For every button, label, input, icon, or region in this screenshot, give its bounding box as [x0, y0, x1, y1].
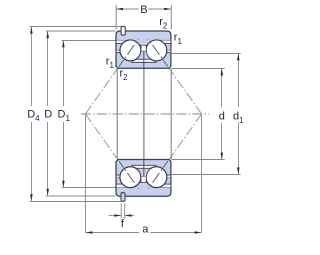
f right arrow tail: [125, 215, 134, 217]
left ring gap: [117, 175, 123, 177]
raceway root line: [131, 61, 157, 63]
locating pin top: [121, 26, 125, 35]
contact line left-down: [85, 114, 138, 189]
contact line left-up: [85, 39, 138, 114]
D4 bottom extension line: [30, 201, 122, 203]
inner ring raceway white band: [134, 56, 154, 62]
d1 top extension line: [172, 53, 241, 55]
a dimension line: [86, 232, 140, 234]
cage neck: [141, 46, 146, 52]
ball left: [120, 40, 141, 61]
contact line through left ball: [119, 39, 139, 67]
svg-text:d1: d1: [233, 111, 244, 125]
contact line through right ball: [148, 39, 168, 67]
D4 top extension line: [30, 26, 122, 28]
D top extension line: [46, 30, 116, 32]
svg-text:r1: r1: [106, 56, 115, 70]
ball right: [146, 167, 167, 188]
left face line: [116, 68, 118, 159]
svg-text:r2: r2: [120, 68, 129, 82]
svg-text:d: d: [219, 111, 225, 123]
D bottom extension line: [46, 195, 116, 197]
D top arrow: [46, 32, 49, 39]
cage neck: [141, 176, 146, 182]
d top extension line: [172, 68, 225, 70]
B dimension line: [116, 8, 139, 10]
locating pin bottom: [121, 193, 125, 202]
inner ring raceway white band: [134, 166, 154, 172]
d bottom arrow: [221, 153, 224, 160]
centre plane line: [143, 68, 145, 159]
outer+inner ring body: [116, 160, 171, 197]
right outer-ring recess: [160, 41, 171, 44]
D dimension line: [47, 31, 49, 106]
right face line: [170, 68, 172, 159]
D1 top arrow: [62, 41, 65, 48]
D bottom arrow: [46, 189, 49, 196]
d bottom extension line: [172, 159, 225, 161]
outer ring centre land bottom edge: [139, 44, 149, 46]
f right arrow: [125, 214, 132, 217]
left ring gap: [117, 51, 123, 53]
svg-text:D4: D4: [27, 109, 40, 123]
outer ring centre land top edge: [139, 181, 149, 183]
B left arrow: [116, 8, 123, 11]
d1 bottom arrow: [237, 167, 240, 174]
contact line right-up: [148, 39, 201, 114]
D4 top arrow: [30, 27, 33, 34]
svg-text:B: B: [140, 4, 147, 16]
right ring gap: [164, 175, 171, 177]
d1 top arrow: [237, 54, 240, 61]
d1 dimension line: [238, 53, 240, 107]
f left extension line: [120, 204, 122, 219]
D1 top extension line: [62, 40, 117, 42]
svg-text:a: a: [142, 223, 149, 235]
B right arrow: [164, 8, 171, 11]
contact line right-down: [148, 114, 201, 189]
centre plane dark segment: [143, 52, 145, 69]
right ring gap: [164, 51, 171, 53]
svg-text:r2: r2: [159, 16, 168, 30]
d top arrow: [221, 69, 224, 76]
f left arrow tail: [109, 215, 121, 217]
f left arrow: [114, 214, 121, 217]
raceway root line: [131, 164, 157, 166]
d dimension line: [221, 68, 223, 107]
ball right: [146, 40, 167, 61]
D1 bottom arrow: [62, 181, 65, 188]
contact line through right ball: [148, 161, 168, 189]
svg-text:D1: D1: [58, 109, 71, 123]
right outer-ring recess: [160, 184, 171, 187]
D1 dimension line: [63, 40, 65, 106]
left outer-ring recess: [117, 41, 127, 44]
f right extension line: [124, 204, 126, 219]
svg-text:r1: r1: [174, 32, 183, 46]
D4 dimension line: [31, 27, 33, 107]
a left arrow: [86, 231, 93, 234]
inner ring centre flare: [136, 168, 151, 176]
B right extension line: [170, 5, 172, 30]
D4 bottom arrow: [30, 194, 33, 201]
ball left: [120, 167, 141, 188]
B left extension line: [115, 5, 117, 30]
a right arrow: [195, 231, 202, 234]
centre plane dark segment: [143, 159, 145, 176]
outer+inner ring body: [116, 31, 171, 68]
inner ring centre flare: [136, 51, 151, 59]
contact line through left ball: [119, 161, 139, 189]
d1 bottom extension line: [172, 174, 241, 176]
svg-text:D: D: [44, 109, 52, 121]
D1 bottom extension line: [62, 187, 117, 189]
left outer-ring recess: [117, 184, 127, 187]
a left vertical (from left apex): [85, 115, 87, 233]
axis centerline: [81, 113, 209, 115]
a right vertical (from right apex): [201, 115, 203, 233]
svg-text:f: f: [121, 218, 125, 230]
